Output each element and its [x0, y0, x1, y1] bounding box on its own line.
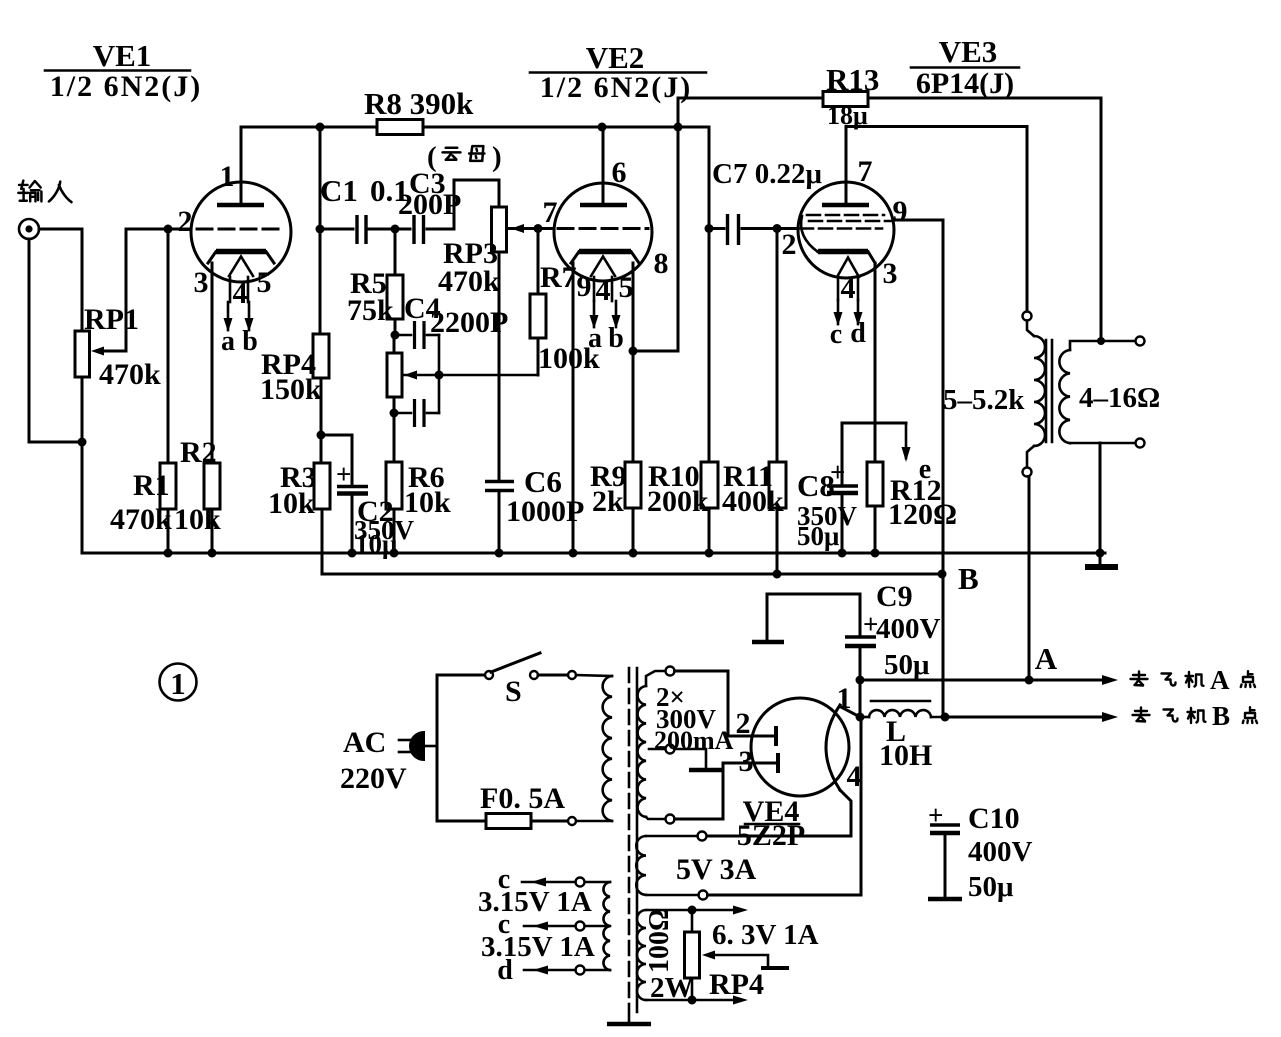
svg-text:5–5.2k: 5–5.2k [943, 384, 1025, 416]
label VE1 [45, 38, 202, 103]
svg-text:1: 1 [220, 160, 235, 193]
VE3 g2 screen (dashed) [809, 220, 892, 223]
wire cathode to R13 riser [633, 350, 678, 353]
wire HV bottom to VE4 plate 3 [675, 763, 777, 819]
VE1 cathode [208, 252, 274, 264]
capacitor C4 2200P (lower) [394, 397, 439, 427]
potentiometer (tone) below R5 [387, 335, 417, 397]
input jack J [19, 219, 39, 239]
VE3 g1 grid (dashed) [800, 227, 882, 230]
VE2 heater [591, 257, 615, 277]
svg-text:A: A [1210, 665, 1230, 695]
svg-text:220V: 220V [340, 762, 407, 795]
svg-text:400V: 400V [968, 836, 1033, 868]
resistor R2 10k [174, 263, 221, 553]
svg-text:B: B [1212, 701, 1230, 731]
svg-text:F0. 5A: F0. 5A [480, 782, 565, 815]
terminal arrow d [524, 969, 576, 972]
node R5/C4 [391, 331, 400, 340]
svg-text:R8 390k: R8 390k [364, 86, 474, 121]
VE2 cathode [571, 252, 639, 264]
svg-text:200k: 200k [647, 485, 709, 518]
svg-text:200P: 200P [398, 188, 461, 221]
node R13 riser crossing [674, 123, 683, 132]
svg-text:RP4: RP4 [709, 968, 764, 1001]
svg-text:3.15V 1A: 3.15V 1A [481, 931, 595, 963]
wire RP3 bottom to C6 [498, 252, 501, 481]
VE1 pin leads 4,5 [229, 277, 232, 302]
svg-text:+: + [336, 459, 351, 489]
node R1 top [164, 225, 173, 234]
potentiometer RP1 470k [75, 229, 161, 391]
node RP4/R3/C2 [317, 431, 326, 440]
wire C3 to RP3 top [454, 180, 499, 229]
svg-text:2: 2 [178, 205, 193, 238]
svg-text:VE2: VE2 [586, 40, 645, 75]
T1 3.15V 1A windings [478, 864, 610, 986]
svg-text:VE1: VE1 [93, 38, 152, 73]
svg-text:4: 4 [596, 274, 611, 307]
power transformer T1 primary [568, 671, 612, 825]
svg-text:6P14(J): 6P14(J) [916, 67, 1014, 100]
svg-text:470k: 470k [99, 358, 161, 391]
secondary 4-16ohm winding [1059, 337, 1160, 558]
A output line [860, 641, 1118, 685]
svg-text:1: 1 [170, 666, 186, 701]
terminal arrow c (mid) [524, 925, 576, 928]
label 输入 (input) [18, 181, 71, 203]
svg-text:6: 6 [612, 156, 627, 189]
svg-text:AC: AC [343, 726, 386, 759]
svg-text:5V 3A: 5V 3A [676, 853, 757, 886]
svg-text:VE3: VE3 [939, 34, 998, 69]
ground at C9 [752, 640, 784, 645]
wire grid VE1 pin2 [126, 228, 191, 231]
wire cathode / C8 / e node [842, 422, 906, 425]
svg-text:b: b [242, 326, 258, 357]
label 去乙机A点 [1131, 665, 1256, 695]
svg-text:1/2 6N2(J): 1/2 6N2(J) [50, 70, 202, 103]
VE3 g3 (dashed) [807, 214, 884, 217]
svg-text:C9: C9 [876, 580, 913, 613]
wire VE2 pin9 shield to ground [572, 263, 575, 553]
svg-text:): ) [492, 141, 502, 173]
svg-text:9: 9 [577, 270, 592, 303]
svg-text:(: ( [427, 141, 437, 173]
T1 5V 3A winding [636, 832, 756, 900]
wire 5V bottom to B node riser [708, 717, 862, 895]
fuse F0.5A [437, 782, 567, 829]
svg-text:50μ: 50μ [797, 521, 839, 551]
tube VE3 6P14 [782, 127, 908, 351]
svg-text:B: B [958, 561, 979, 596]
wire feedback R13 to secondary [1100, 98, 1103, 341]
node pin1 / choke [856, 713, 865, 722]
capacitor C9 400V 50u [752, 580, 941, 717]
svg-text:470k: 470k [110, 503, 172, 536]
VE3 cathode [818, 252, 875, 264]
svg-text:b: b [608, 323, 624, 354]
heater arrows a,b [227, 302, 230, 330]
VE3 pin leads 4,5 [837, 277, 840, 300]
capacitor C1 0.1 [320, 173, 409, 244]
wire VE2 cathode pin8 down [632, 263, 635, 462]
T1 HV secondary 2x300V 200mA [638, 667, 734, 824]
svg-text:C8: C8 [797, 468, 835, 503]
capacitor C7 0.22u [705, 158, 823, 245]
svg-text:400V: 400V [876, 613, 941, 645]
wire wiper to R7 bottom [403, 374, 538, 377]
AC plug [399, 732, 437, 760]
arrow e (heater balance) [902, 423, 932, 485]
wire input ground side [29, 239, 82, 442]
transformer core [1046, 340, 1052, 442]
svg-text:5: 5 [619, 271, 634, 304]
resistor R3 10k [268, 435, 330, 574]
svg-text:C6: C6 [524, 464, 562, 499]
ground rail [82, 552, 1105, 555]
terminal arrow c [522, 881, 576, 884]
VE4 plate pin3 [776, 753, 780, 773]
svg-text:6. 3V 1A: 6. 3V 1A [712, 919, 819, 951]
primary 5-5.2k winding [943, 312, 1045, 477]
tube VE1 1/2 6N2 [178, 127, 292, 357]
svg-text:a: a [221, 326, 235, 357]
svg-text:RP1: RP1 [84, 303, 139, 336]
svg-text:3: 3 [739, 745, 754, 778]
svg-text:4: 4 [233, 277, 248, 310]
svg-text:150k: 150k [260, 373, 322, 406]
svg-text:470k: 470k [438, 265, 500, 298]
svg-text:10k: 10k [268, 487, 315, 520]
svg-text:400k: 400k [722, 485, 784, 518]
svg-text:R13: R13 [826, 62, 879, 97]
svg-text:S: S [505, 675, 522, 708]
svg-text:8: 8 [654, 247, 669, 280]
VE2 plate [580, 203, 627, 208]
node C1/C3/R5 [391, 225, 400, 234]
wire VE1 plate top rail [241, 127, 709, 229]
VE4 plate pin2 [774, 726, 778, 746]
potentiometer RP3 470k [438, 207, 554, 298]
svg-text:100Ω: 100Ω [644, 909, 675, 973]
capacitor C8 350V 50u [797, 423, 858, 553]
wire node-320 riser [319, 127, 322, 334]
svg-text:50μ: 50μ [884, 649, 930, 681]
wire VE3 cathode pin3 down [874, 263, 877, 462]
svg-text:3: 3 [194, 266, 209, 299]
svg-text:5: 5 [257, 266, 272, 299]
wire input to RP1 top [39, 229, 82, 331]
node C9 / A line [856, 676, 865, 685]
VE3 heater [837, 258, 859, 278]
wire R13 riser [677, 98, 680, 351]
VE1 heater [229, 257, 253, 277]
svg-text:A: A [1035, 641, 1058, 676]
node C1 tap [316, 225, 325, 234]
svg-text:3: 3 [883, 257, 898, 290]
resistor R7 100k [530, 229, 600, 376]
svg-text:4–16Ω: 4–16Ω [1079, 382, 1160, 414]
node cathode/R13 branch [629, 347, 638, 356]
resistor R1 470k [110, 229, 176, 553]
wire to switch [437, 674, 484, 677]
potentiometer RP4 100ohm 2W hum balance [644, 909, 789, 1004]
tube VE2 1/2 6N2 [543, 127, 669, 354]
ground symbol chassis [1085, 553, 1118, 567]
svg-text:100k: 100k [538, 342, 600, 375]
B+ rail (node B) [322, 573, 942, 576]
resistor R12 120ohm [867, 462, 957, 553]
VE2 grid (dashed) [558, 227, 648, 230]
svg-text:75k: 75k [347, 294, 394, 327]
node pot bottom / C4 lower [390, 409, 399, 418]
resistor R9 2k [590, 460, 641, 553]
node choke out [941, 713, 950, 722]
wire VE4 pin4 to 5V winding [707, 790, 851, 836]
choke L 10H [860, 701, 945, 772]
tube VE4 5Z2P rectifier [736, 682, 862, 852]
svg-text:10k: 10k [174, 503, 221, 536]
svg-text:7: 7 [858, 155, 873, 188]
wire VE3 screen pin9 to B [894, 220, 943, 717]
switch S [485, 653, 568, 708]
svg-text:C7 0.22μ: C7 0.22μ [712, 158, 822, 190]
T1 core (dashed) [607, 668, 651, 1024]
VE3 plate [822, 203, 869, 208]
svg-text:50μ: 50μ [968, 871, 1014, 903]
node R7 top [534, 224, 543, 233]
T1 6.3V 1A winding [637, 906, 819, 1005]
label VE2 [530, 40, 706, 104]
heater arrows a,b [593, 301, 596, 327]
B output line [945, 712, 1118, 722]
svg-text:3.15V 1A: 3.15V 1A [478, 886, 592, 918]
capacitor C3 200P (mica) [395, 167, 461, 244]
VE2 pin leads 4,5 [593, 277, 596, 301]
svg-text:2k: 2k [592, 485, 624, 518]
svg-text:2200P: 2200P [430, 306, 508, 339]
wire primary bottom to A line [1028, 477, 1031, 681]
wire VE3 plate to output transformer primary [846, 127, 1027, 312]
wire VE4 pin1 to node [841, 707, 860, 717]
label 去乙机B点 [1133, 701, 1258, 731]
svg-text:200mA: 200mA [654, 726, 734, 755]
svg-text:7: 7 [543, 196, 558, 229]
svg-text:2: 2 [736, 707, 751, 740]
svg-text:R7: R7 [540, 261, 577, 294]
svg-text:4: 4 [847, 760, 862, 793]
VE1 grid (dashed) [197, 228, 284, 231]
svg-text:C10: C10 [968, 802, 1020, 835]
potentiometer RP4 150k [260, 334, 329, 435]
6.3V arrows [692, 909, 736, 912]
capacitor C2 350V 10u (electrolytic) [321, 435, 415, 559]
svg-text:4: 4 [841, 272, 856, 305]
resistor R5 75k [347, 229, 403, 335]
wire AC split [436, 675, 439, 821]
svg-text:120Ω: 120Ω [888, 498, 957, 531]
svg-text:2W: 2W [650, 972, 694, 1004]
capacitor C6 1000P [485, 464, 584, 553]
rail junction dots [164, 549, 173, 558]
VE3 beam plate arc [801, 216, 818, 252]
label (云母) mica [427, 141, 502, 173]
svg-text:R2: R2 [180, 436, 217, 469]
capacitor C4 2200P (upper) [395, 292, 508, 413]
wire HV top to VE4 plate 2 [675, 671, 775, 736]
node VE2 plate [598, 123, 607, 132]
node R11 top [773, 224, 782, 233]
VE4 filament [826, 705, 840, 790]
svg-text:2: 2 [782, 228, 797, 261]
resistor R6 10k [386, 413, 451, 553]
resistor R8 390k [364, 86, 474, 135]
svg-text:C1: C1 [320, 173, 358, 208]
label VE3 [911, 34, 1019, 100]
label AC 220V [340, 726, 407, 795]
svg-text:c: c [830, 319, 842, 350]
resistor R11 400k [722, 229, 786, 575]
node plate/R8/RP4 [316, 123, 325, 132]
resistor R13 + 18u label [678, 62, 1101, 130]
capacitor C10 400V 50u [928, 800, 1033, 903]
node wiper/C4 [435, 371, 444, 380]
resistor R10 200k [647, 229, 718, 554]
svg-text:1/2 6N2(J): 1/2 6N2(J) [540, 71, 692, 104]
node input-ground junction [78, 438, 87, 447]
svg-text:d: d [850, 318, 866, 349]
label circled 1 [160, 664, 197, 702]
svg-text:R1: R1 [133, 469, 170, 502]
svg-text:9: 9 [893, 195, 908, 228]
VE1 plate [217, 203, 264, 208]
HV center tap to ground [675, 749, 724, 770]
wire RP1 bottom to ground rail [81, 377, 84, 553]
svg-text:10H: 10H [879, 739, 932, 772]
heater arrows c,d [837, 300, 840, 324]
